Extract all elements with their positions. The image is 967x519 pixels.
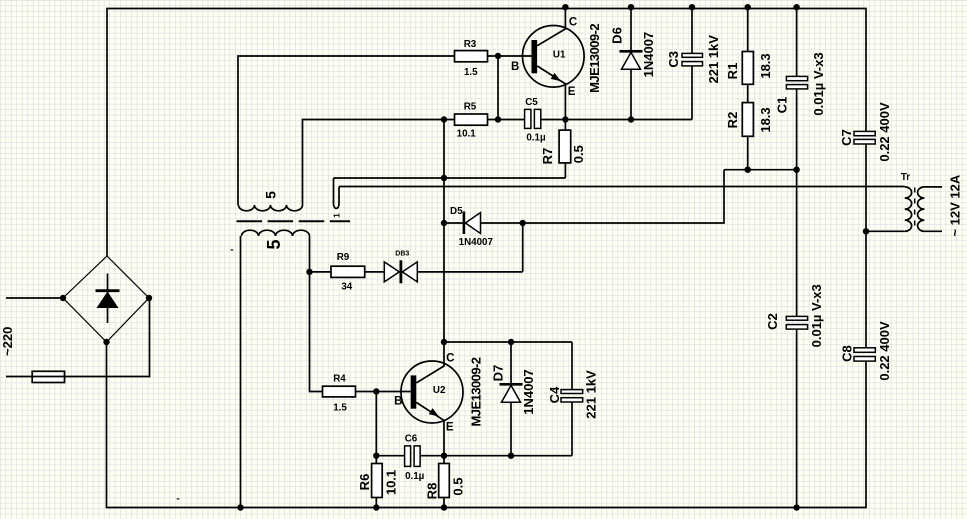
wire: D7 bottom lead <box>510 402 512 455</box>
wire: C1 top lead <box>796 8 798 76</box>
wire: upper winding right lead and R5 row <box>303 120 455 206</box>
svg-text:1N4007: 1N4007 <box>459 237 494 248</box>
diode D5 triangle <box>465 213 480 234</box>
svg-text:E: E <box>446 421 454 433</box>
junction dot D7 top <box>508 339 514 345</box>
wire: R9 to DB3 <box>365 271 385 273</box>
junction dot R1 at top rail <box>745 4 751 10</box>
transformer T1 winding lower (5) <box>242 230 310 236</box>
svg-text:B: B <box>394 395 402 407</box>
svg-text:5: 5 <box>264 239 284 249</box>
svg-text:R5: R5 <box>464 102 477 113</box>
svg-text:R4: R4 <box>333 374 346 385</box>
junction dot base vertical / C5 row <box>495 116 501 122</box>
svg-text:1.5: 1.5 <box>333 402 347 413</box>
svg-text:221 1kV: 221 1kV <box>706 35 721 84</box>
junction dot D6 at top rail <box>628 4 634 10</box>
wire: R7 top lead <box>564 120 566 131</box>
transformer T1 feedback winding (1 turn) <box>334 178 340 208</box>
junction dot C1 at top rail <box>793 4 799 10</box>
resistor R2 <box>742 103 753 137</box>
capacitor C6 <box>405 446 411 467</box>
junction dot bridge left corner <box>60 295 66 301</box>
wire: right vertical C7 to C8 <box>865 145 867 348</box>
capacitor C4 <box>561 390 583 394</box>
svg-text:0.01µ V-x3: 0.01µ V-x3 <box>809 284 824 347</box>
svg-text:34: 34 <box>341 282 352 293</box>
svg-text:R8: R8 <box>424 483 439 500</box>
diode D6 cathode bar <box>620 50 643 53</box>
wire: R6 bottom lead <box>375 498 377 508</box>
diac DB3 right triangle <box>402 262 417 282</box>
wire: D6 top lead <box>630 8 632 51</box>
transistor U2 base bar <box>411 375 417 408</box>
wire: U2 collector row to D7 and C4 <box>444 341 572 343</box>
U2 emitter arrow <box>429 408 439 416</box>
svg-text:D5: D5 <box>450 206 463 217</box>
svg-text:1N4007: 1N4007 <box>521 369 536 415</box>
wire: R6 top lead <box>375 456 377 464</box>
svg-text:18.3: 18.3 <box>758 107 773 132</box>
svg-text:Tr: Tr <box>901 172 910 183</box>
wire: Tr secondary bottom lead <box>924 230 942 232</box>
wire: C3 top lead <box>691 8 693 53</box>
wire: R8 top lead <box>443 456 445 464</box>
wire: D7 top lead <box>510 342 512 384</box>
wire: top rail with left vertical and right vertical to C7 <box>107 9 866 257</box>
capacitor C2 <box>786 316 807 320</box>
svg-text:R3: R3 <box>464 39 477 50</box>
wire: U1 collector to top rail <box>537 8 565 46</box>
wire: right vertical below C8, bottom rail, left vertical to bridge <box>107 342 867 508</box>
junction dot Tr return at right vertical <box>863 228 869 234</box>
resistor R4 <box>323 386 356 397</box>
svg-text:C6: C6 <box>405 433 418 444</box>
diode D5 cathode bar <box>463 212 466 235</box>
capacitor C1 <box>786 76 807 80</box>
junction dot R3 right / base node <box>495 53 501 59</box>
junction dot C3 at top rail <box>689 4 695 10</box>
resistor R8 <box>439 464 450 498</box>
svg-text:DB3: DB3 <box>395 251 409 258</box>
svg-text:~220: ~220 <box>0 327 15 356</box>
transistor U2 body <box>401 361 463 423</box>
wire: C2 bottom lead to bottom rail <box>796 329 798 507</box>
U1 emitter arrow <box>551 73 561 81</box>
resistor R3 <box>455 51 488 62</box>
junction dot R5 left / center column top <box>441 116 447 122</box>
svg-text:C: C <box>569 17 577 29</box>
junction dot R6 at bottom rail <box>373 504 379 510</box>
svg-text:R1: R1 <box>725 63 740 80</box>
svg-text:R2: R2 <box>725 112 740 129</box>
diac DB3 left triangle <box>384 262 399 282</box>
transformer T1 primary winding upper (5) <box>239 205 303 211</box>
capacitor C3 <box>682 53 703 57</box>
junction dot R6 top <box>373 453 379 459</box>
svg-text:0.22 400V: 0.22 400V <box>877 321 892 381</box>
svg-text:18.3: 18.3 <box>758 53 773 78</box>
svg-text:U2: U2 <box>433 385 446 396</box>
junction dot U2 emitter node <box>441 453 447 459</box>
wire: C3 bottom lead <box>691 66 693 120</box>
wire: AC input upper lead <box>6 297 63 299</box>
junction dot D5 cathode branch <box>520 220 526 226</box>
capacitor C5 <box>525 109 531 128</box>
wire: U2 emitter down to C6 row <box>416 402 444 455</box>
wire: D5 right lead to R2/C1 tie column <box>481 170 725 223</box>
wire: upper winding left lead and R3 row <box>238 56 455 205</box>
svg-text:C5: C5 <box>525 97 538 108</box>
bridge rectifier diamond <box>63 256 149 342</box>
svg-text:0.1µ: 0.1µ <box>526 133 546 144</box>
svg-text:221 1kV: 221 1kV <box>584 370 599 419</box>
transformer Tr primary winding <box>905 187 912 231</box>
resistor R9 <box>331 266 365 277</box>
junction dot R8 at bottom rail <box>441 504 447 510</box>
wire: lower winding right lead down to R4 <box>310 236 323 392</box>
wire: D5 left lead <box>444 222 463 224</box>
wire: C4 bottom lead <box>571 402 573 456</box>
wire: R5 to C5 <box>488 119 525 121</box>
resistor R5 <box>455 114 488 125</box>
svg-text:0.01µ V-x3: 0.01µ V-x3 <box>811 52 826 115</box>
junction dot D7 bottom <box>508 453 514 459</box>
junction dot U2 collector at center column <box>441 339 447 345</box>
svg-text:C7: C7 <box>839 129 854 146</box>
bridge diode triangle <box>97 292 119 309</box>
wire: R9 left lead <box>310 271 332 273</box>
svg-text:R9: R9 <box>337 252 350 263</box>
wire: Tr secondary top lead <box>924 186 942 188</box>
resistor R7 <box>559 130 571 163</box>
svg-text:D7: D7 <box>491 365 506 382</box>
capacitor C7 <box>854 131 875 135</box>
wire: feedback row from 1-turn winding to R7 foot <box>334 177 566 179</box>
capacitor C8 <box>854 348 875 353</box>
svg-text:10.1: 10.1 <box>383 470 398 495</box>
svg-text:R6: R6 <box>357 474 372 491</box>
wire: long feedback line to output transformer <box>339 186 905 188</box>
svg-text:R7: R7 <box>540 148 555 165</box>
transformer T1 core <box>237 220 351 222</box>
svg-text:~ 12V 12A: ~ 12V 12A <box>948 174 963 236</box>
resistor R6 <box>372 464 383 498</box>
svg-text:C4: C4 <box>547 386 562 403</box>
wire: base node vertical <box>497 56 499 120</box>
svg-text:C3: C3 <box>666 51 681 68</box>
wire: R8 bottom lead <box>443 498 445 508</box>
wire: Tr primary bottom lead to right vertical <box>866 230 905 232</box>
junction dot bridge right corner <box>146 295 152 301</box>
junction dot C2 at bottom rail <box>793 504 799 510</box>
wire: U2 base node vertical <box>375 392 377 456</box>
transformer Tr core <box>914 188 916 228</box>
wire: T1 lower winding left lead to bottom rail <box>240 236 242 508</box>
svg-text:MJE13009-2: MJE13009-2 <box>469 357 484 426</box>
svg-text:C: C <box>446 353 454 365</box>
junction dot U2 base node <box>373 388 379 394</box>
wire: AC input lower lead through fuse to bridge right corner <box>6 298 150 377</box>
svg-text:5: 5 <box>262 191 278 199</box>
svg-text:MJE13009-2: MJE13009-2 <box>587 24 602 93</box>
svg-text:-: - <box>176 494 179 505</box>
svg-text:C2: C2 <box>765 313 780 330</box>
wire: R1 top lead <box>747 8 749 52</box>
wire: R2 bottom lead <box>747 136 749 169</box>
bridge diode cathode bar <box>96 289 120 292</box>
svg-text:1N4007: 1N4007 <box>641 32 656 78</box>
wire: R4 to U2 base <box>356 391 411 393</box>
diode D6 triangle <box>622 52 641 69</box>
wire: emitter row left of C6 <box>376 455 404 457</box>
wire: D5 node down to diac row <box>522 223 524 272</box>
bridge diode lead <box>107 274 109 324</box>
wire: U1 emitter down to C5 row <box>537 66 565 120</box>
wire: C5 to emitter node, D6, C3 <box>541 119 692 121</box>
svg-text:U1: U1 <box>553 50 566 61</box>
svg-text:10.1: 10.1 <box>457 128 477 139</box>
wire: R7 bottom lead <box>564 163 566 178</box>
junction dot U1 emitter node <box>562 116 568 122</box>
junction dot R2 bottom <box>745 167 751 173</box>
junction dot C1 bottom <box>793 167 799 173</box>
wire: center column vertical into U2 collector <box>416 120 444 383</box>
svg-text:0.5: 0.5 <box>451 478 466 496</box>
junction dot lower winding at bottom rail <box>237 504 243 510</box>
wire: DB3 to D5 node branch <box>417 271 522 273</box>
junction dot U1 collector at top rail <box>562 4 568 10</box>
junction dot D5 anode at center column <box>441 220 447 226</box>
junction dot R9 left node <box>306 269 312 275</box>
svg-text:B: B <box>511 61 519 73</box>
svg-text:1: 1 <box>332 213 341 218</box>
wire: D6 bottom lead <box>630 69 632 119</box>
wire: emitter row right of C6 <box>420 455 572 457</box>
svg-text:D6: D6 <box>609 27 624 44</box>
wire: R2/C1 tie row <box>724 169 797 171</box>
junction dot center column at feedback row <box>441 175 447 181</box>
svg-text:0.5: 0.5 <box>571 145 586 163</box>
resistor R1 <box>742 52 753 85</box>
junction dot D6 bottom node <box>628 116 634 122</box>
junction dot bridge bottom corner <box>103 339 109 345</box>
wire: C1 bottom lead down to C2 <box>796 89 798 317</box>
svg-text:C8: C8 <box>840 345 855 362</box>
svg-text:-: - <box>230 245 233 256</box>
svg-text:0.1µ: 0.1µ <box>405 471 425 482</box>
svg-text:C1: C1 <box>775 97 790 114</box>
diac DB3 center bar <box>399 260 402 283</box>
wire: R1 to R2 <box>747 84 749 102</box>
fuse F1 <box>32 371 64 382</box>
diode D7 cathode bar <box>500 383 523 386</box>
diode D7 triangle <box>502 385 521 402</box>
svg-text:E: E <box>568 86 576 98</box>
svg-text:1.5: 1.5 <box>464 67 478 78</box>
svg-text:0.22 400V: 0.22 400V <box>877 102 892 162</box>
wire: C4 top lead <box>571 342 573 390</box>
transistor U1 base bar <box>532 40 538 73</box>
transformer Tr secondary winding <box>918 187 925 231</box>
transistor U1 body <box>523 26 585 88</box>
wire: R3 to U1 base <box>488 55 533 57</box>
